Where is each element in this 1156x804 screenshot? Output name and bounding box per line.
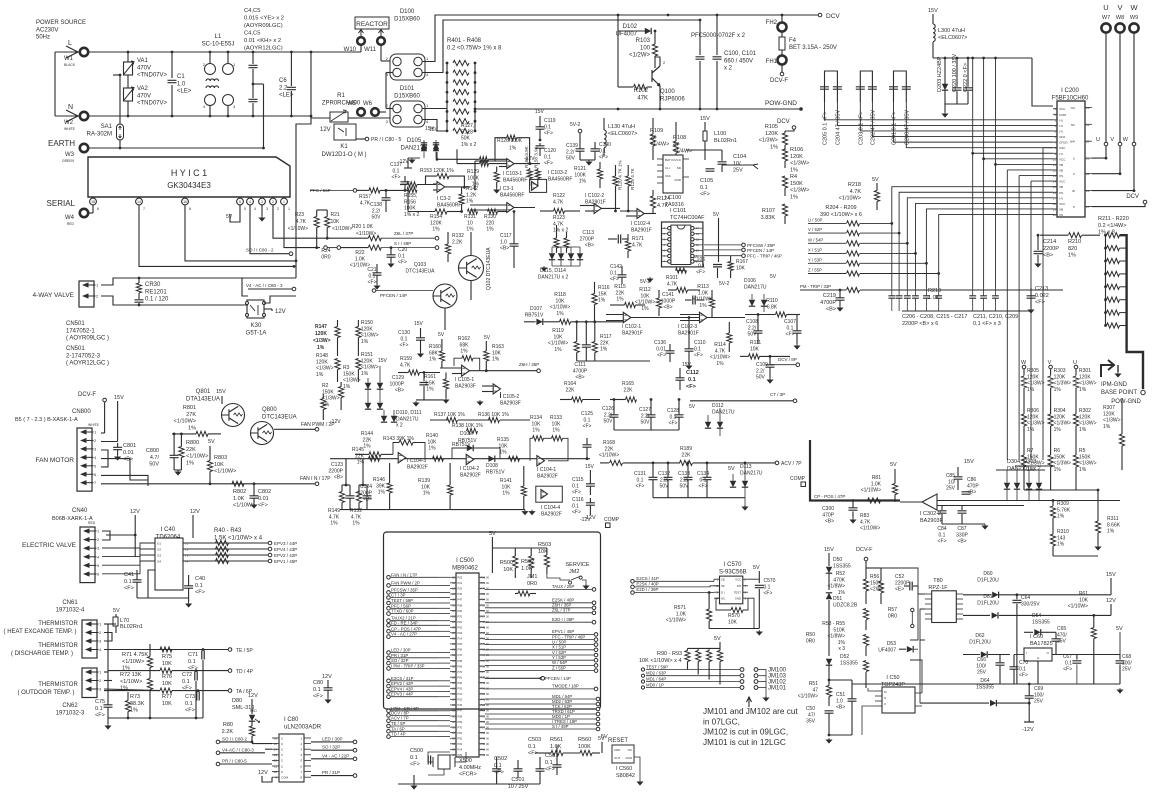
wire — [1050, 388, 1052, 414]
wire — [610, 399, 626, 401]
svg-text:R40 - R43: R40 - R43 — [214, 528, 242, 534]
svg-text:RED: RED — [250, 709, 257, 713]
wire — [322, 394, 324, 399]
wire — [274, 428, 315, 430]
svg-text:R108: R108 — [673, 135, 686, 141]
svg-text:FAN I N / 17P: FAN I N / 17P — [391, 572, 417, 577]
svg-text:R56: R56 — [870, 574, 879, 580]
wire — [489, 163, 508, 165]
svg-text:RPZ-1F: RPZ-1F — [928, 585, 948, 591]
svg-text:P: P — [1073, 205, 1075, 209]
wire — [311, 117, 330, 119]
svg-text:PFCEN / 14P: PFCEN / 14P — [545, 676, 571, 681]
svg-text:5.76K: 5.76K — [1057, 507, 1071, 513]
ground — [1115, 372, 1120, 377]
svg-text:120K: 120K — [765, 131, 778, 137]
svg-text:VCC: VCC — [735, 578, 741, 582]
svg-text:R22: R22 — [355, 250, 364, 256]
wire — [433, 189, 437, 191]
svg-text:<F>: <F> — [694, 353, 703, 359]
svg-text:TC74HC00AF: TC74HC00AF — [670, 215, 705, 221]
wire — [552, 265, 580, 267]
terminal — [80, 144, 88, 152]
svg-text:1%: 1% — [428, 446, 436, 452]
svg-text:R116: R116 — [598, 285, 610, 291]
svg-text:D15XB60: D15XB60 — [394, 16, 420, 22]
svg-text:10K: 10K — [499, 443, 509, 449]
wire — [967, 91, 969, 104]
svg-text:in 07LGC,: in 07LGC, — [703, 717, 740, 726]
svg-text:DAN217U x 2: DAN217U x 2 — [1007, 466, 1041, 472]
wire — [647, 86, 652, 88]
svg-text:C108: C108 — [746, 319, 758, 325]
wire — [650, 400, 652, 415]
svg-text:O1: O1 — [157, 542, 161, 546]
wire — [113, 74, 120, 76]
svg-text:O3: O3 — [157, 554, 161, 558]
svg-text:VS: VS — [1059, 174, 1063, 178]
op-amp I C102-1 BA2901F — [623, 312, 631, 322]
svg-text:47: 47 — [812, 687, 818, 693]
svg-text:2.2K: 2.2K — [452, 239, 463, 245]
svg-text:<F>: <F> — [544, 131, 553, 137]
svg-text:12V: 12V — [1106, 598, 1116, 604]
wire — [437, 158, 480, 160]
svg-text:15V: 15V — [535, 109, 545, 115]
wire — [514, 207, 535, 209]
svg-text:R148: R148 — [316, 353, 328, 359]
wire — [571, 321, 625, 323]
svg-text:R71 4.75K: R71 4.75K — [122, 652, 148, 658]
wire — [513, 246, 515, 268]
wire — [770, 364, 796, 366]
svg-text:68K: 68K — [460, 342, 470, 348]
svg-text:I N: I N — [1059, 196, 1063, 200]
svg-text:C205 0.1 <F>: C205 0.1 <F> — [823, 111, 829, 145]
svg-text:R162: R162 — [458, 336, 470, 342]
svg-text:3.83K: 3.83K — [761, 215, 776, 221]
wire — [852, 511, 854, 518]
svg-text:1%: 1% — [1027, 427, 1035, 433]
svg-text:I C40: I C40 — [161, 527, 176, 533]
wire — [1023, 388, 1025, 414]
svg-text:I C60: I C60 — [1030, 634, 1043, 640]
svg-text:4.7K: 4.7K — [351, 514, 362, 520]
svg-text:C200 47 / 35V: C200 47 / 35V — [904, 110, 910, 145]
wire — [1097, 533, 1099, 545]
wire — [174, 469, 181, 471]
svg-text:0.1: 0.1 — [700, 185, 708, 191]
ground — [541, 266, 546, 271]
ground — [477, 400, 482, 405]
svg-text:VCC: VCC — [1059, 107, 1066, 111]
svg-text:RED: RED — [88, 521, 96, 525]
svg-text:5V: 5V — [208, 439, 215, 445]
svg-text:C110: C110 — [694, 340, 706, 346]
svg-text:C4,C5: C4,C5 — [244, 8, 260, 14]
svg-text:R51: R51 — [809, 681, 818, 687]
svg-text:150K: 150K — [1079, 454, 1091, 460]
svg-text:D106: D106 — [744, 278, 756, 284]
svg-text:0.1: 0.1 — [1065, 660, 1072, 666]
wire — [290, 52, 292, 86]
wire — [758, 589, 760, 629]
wire — [904, 585, 909, 587]
svg-text:BA2902F: BA2902F — [541, 511, 562, 517]
wire — [149, 672, 151, 679]
wire — [706, 463, 708, 477]
svg-text:DCV-F: DCV-F — [770, 78, 788, 84]
wire earth to right — [120, 147, 264, 149]
capacitor C801 0.01 <B> — [113, 447, 122, 449]
wire — [209, 105, 211, 116]
wire — [330, 237, 368, 239]
wire — [963, 614, 990, 616]
svg-text:1%: 1% — [361, 371, 369, 377]
svg-text:R105: R105 — [765, 124, 778, 130]
op-amp I C103-1 BA4560RF — [507, 159, 514, 169]
svg-text:R401 - R408: R401 - R408 — [447, 38, 482, 44]
svg-text:E2D I / 38P: E2D I / 38P — [552, 617, 574, 622]
node — [387, 735, 391, 739]
svg-text:R119: R119 — [552, 328, 564, 334]
svg-text:12V: 12V — [248, 693, 258, 699]
terminal — [357, 108, 365, 116]
svg-text:UDZC8.2B: UDZC8.2B — [833, 602, 858, 608]
wire — [1038, 470, 1040, 483]
svg-text:0.1: 0.1 — [610, 270, 617, 276]
svg-text:11: 11 — [274, 764, 277, 768]
wire pin8 down — [92, 205, 94, 213]
svg-text:I C101: I C101 — [670, 208, 686, 214]
wire — [636, 304, 646, 306]
wire — [171, 85, 173, 116]
svg-text:13: 13 — [274, 753, 278, 757]
wire — [529, 179, 531, 187]
wire — [932, 42, 934, 58]
svg-text:Z6L / 37P: Z6L / 37P — [394, 231, 413, 236]
svg-text:1.0K: 1.0K — [355, 256, 366, 262]
svg-text:C1: C1 — [177, 74, 185, 80]
svg-text:12V: 12V — [275, 309, 286, 315]
svg-text:E2CS / 41P: E2CS / 41P — [636, 576, 659, 581]
wire — [1075, 467, 1077, 490]
svg-text:SO / 32P: SO / 32P — [391, 658, 409, 663]
wire — [601, 207, 620, 209]
svg-text:C125: C125 — [581, 411, 593, 417]
svg-text:R118: R118 — [554, 292, 566, 298]
svg-text:P50: P50 — [481, 742, 486, 746]
wire — [675, 153, 677, 162]
svg-text:R114: R114 — [714, 342, 726, 348]
svg-text:C127: C127 — [639, 407, 651, 413]
wire fan pwm chain — [101, 483, 315, 485]
node — [864, 557, 868, 561]
svg-text:C68: C68 — [1122, 654, 1131, 660]
svg-text:N: N — [68, 104, 73, 111]
wire — [996, 469, 1045, 471]
svg-text:12: 12 — [274, 759, 278, 763]
svg-text:25V: 25V — [1034, 699, 1044, 705]
svg-text:I C104-2: I C104-2 — [460, 466, 479, 472]
wire — [721, 165, 723, 172]
wire — [627, 165, 629, 176]
svg-text:RA-302M: RA-302M — [87, 131, 112, 137]
connector CN800 fan — [77, 428, 92, 491]
svg-text:15V: 15V — [928, 8, 938, 14]
svg-text:R152: R152 — [350, 508, 362, 514]
wire — [652, 190, 654, 196]
wire — [341, 485, 343, 492]
svg-text:CT / 3P: CT / 3P — [391, 593, 406, 598]
svg-text:8: 8 — [97, 207, 99, 211]
svg-text:15V: 15V — [1106, 572, 1116, 578]
wire — [435, 140, 437, 145]
ground — [115, 455, 120, 460]
wire — [646, 687, 740, 689]
wire — [594, 305, 596, 322]
wire — [485, 341, 487, 351]
svg-text:TD / 4P: TD / 4P — [236, 669, 254, 675]
wire — [589, 498, 591, 503]
node — [387, 719, 391, 723]
wire — [376, 264, 378, 273]
svg-text:1000P: 1000P — [390, 381, 405, 387]
svg-text:R189: R189 — [680, 446, 692, 452]
svg-text:16: 16 — [183, 200, 187, 204]
svg-text:8.66K: 8.66K — [1107, 522, 1121, 528]
wire — [127, 717, 129, 719]
wire — [101, 441, 118, 443]
svg-text:TAUX / 25P: TAUX / 25P — [552, 584, 575, 589]
svg-text:2.2/: 2.2/ — [566, 149, 575, 155]
svg-text:R309: R309 — [1057, 501, 1069, 507]
svg-text:DCV: DCV — [1126, 194, 1139, 200]
svg-text:<1/2W>: <1/2W> — [629, 53, 651, 59]
svg-text:4.7K: 4.7K — [657, 203, 669, 209]
wire — [852, 683, 1120, 685]
svg-text:4.7K: 4.7K — [632, 242, 643, 248]
svg-text:50V: 50V — [756, 375, 766, 381]
svg-text:VA2: VA2 — [137, 86, 149, 92]
svg-text:VCC: VCC — [1059, 180, 1066, 184]
svg-text:SC-10-E55J: SC-10-E55J — [202, 41, 235, 47]
svg-text:D107: D107 — [530, 306, 542, 312]
wire — [599, 162, 601, 169]
node — [387, 709, 391, 713]
wire — [613, 400, 615, 415]
svg-text:CT / 3P: CT / 3P — [770, 392, 785, 397]
svg-text:COMP: COMP — [790, 476, 806, 482]
svg-text:CN62: CN62 — [62, 703, 78, 709]
svg-text:5: 5 — [239, 200, 241, 204]
IC I C101 TC74HC00AF — [662, 222, 703, 267]
wire — [172, 670, 230, 672]
svg-text:P92: P92 — [458, 736, 463, 740]
wire earth — [88, 147, 120, 149]
svg-text:I N: I N — [1059, 124, 1063, 128]
svg-text:1%: 1% — [361, 339, 369, 345]
svg-text:I C570: I C570 — [724, 562, 742, 568]
svg-text:BA2902F: BA2902F — [537, 473, 558, 479]
wire — [539, 129, 541, 140]
wire — [719, 642, 721, 648]
svg-text:SO / 32P: SO / 32P — [322, 745, 340, 750]
svg-text:22K: 22K — [682, 452, 692, 458]
svg-text:1971032-4: 1971032-4 — [56, 607, 85, 613]
wire — [653, 497, 745, 499]
svg-text:C73: C73 — [185, 694, 195, 700]
wire — [1037, 255, 1039, 262]
svg-text:C106: C106 — [693, 257, 705, 263]
wire — [995, 288, 997, 296]
wire — [220, 741, 252, 743]
svg-text:JM101 is cut in 12LGC: JM101 is cut in 12LGC — [703, 738, 786, 747]
svg-text:14: 14 — [137, 200, 141, 204]
svg-text:<1/10W>: <1/10W> — [550, 305, 570, 311]
svg-text:C71: C71 — [188, 652, 198, 658]
svg-text:<1/10W>: <1/10W> — [288, 226, 308, 232]
svg-text:V4 - AC / I C80 - 3: V4 - AC / I C80 - 3 — [246, 283, 283, 288]
wire L bus — [88, 51, 361, 53]
wire — [192, 515, 194, 538]
svg-text:R80: R80 — [223, 722, 233, 728]
wire — [606, 314, 623, 316]
wire 5V reset — [601, 742, 603, 753]
svg-text:CN61: CN61 — [62, 600, 78, 606]
wire — [621, 277, 623, 284]
op-amp I C102-3 BA2901F — [700, 312, 708, 322]
svg-text:RE1201: RE1201 — [145, 289, 167, 295]
svg-text:15V: 15V — [824, 547, 834, 553]
svg-text:C800: C800 — [146, 448, 159, 454]
svg-text:<F>: <F> — [313, 694, 323, 700]
wire — [1006, 490, 1008, 501]
svg-text:JM102 is cut in 09LGC,: JM102 is cut in 09LGC, — [703, 728, 788, 737]
svg-text:0.1 <F> x 3: 0.1 <F> x 3 — [973, 321, 1001, 327]
wire — [386, 72, 393, 74]
wire — [440, 367, 462, 369]
svg-text:E2SK / 40P: E2SK / 40P — [636, 582, 658, 587]
wire — [621, 266, 623, 275]
svg-text:D60: D60 — [983, 571, 992, 577]
wire — [696, 299, 704, 301]
svg-text:D112: D112 — [712, 403, 724, 409]
wire — [622, 238, 628, 240]
op-amp I C105-1 BA2903F — [462, 365, 470, 376]
svg-text:BA2903F: BA2903F — [455, 383, 476, 389]
svg-text:<1/10W>: <1/10W> — [710, 355, 730, 361]
node — [387, 724, 391, 728]
svg-text:BA2901F: BA2901F — [622, 330, 643, 336]
node — [387, 679, 391, 683]
svg-text:R145: R145 — [352, 447, 364, 453]
wire — [706, 480, 708, 498]
svg-text:P50: P50 — [481, 631, 486, 635]
svg-text:SERIAL: SERIAL — [47, 199, 76, 208]
svg-text:L130 47uH: L130 47uH — [608, 124, 635, 130]
svg-text:D62: D62 — [975, 633, 984, 639]
IC HYIC1 GK30434E3 — [88, 157, 290, 197]
svg-text:1971032-3: 1971032-3 — [56, 710, 85, 716]
svg-text:CL I: CL I — [665, 166, 671, 170]
wire thermistor rows — [104, 633, 112, 642]
wire — [383, 410, 385, 416]
svg-text:R110: R110 — [766, 298, 778, 304]
ground — [837, 306, 842, 311]
svg-text:<F>: <F> — [583, 424, 592, 430]
svg-text:S I / 49P: S I / 49P — [552, 724, 569, 729]
svg-text:R500: R500 — [500, 560, 513, 566]
svg-text:120K: 120K — [790, 154, 803, 160]
svg-text:100K: 100K — [578, 744, 591, 750]
svg-text:R166 3.9K: R166 3.9K — [524, 145, 529, 168]
svg-text:7: 7 — [143, 207, 145, 211]
wire — [381, 453, 393, 455]
node — [216, 740, 220, 744]
svg-text:Z / 55P: Z / 55P — [552, 665, 566, 670]
svg-text:GND: GND — [735, 597, 741, 601]
svg-text:6: 6 — [189, 207, 191, 211]
svg-text:F4: F4 — [789, 38, 797, 44]
svg-text:U / 50P: U / 50P — [808, 217, 822, 222]
svg-text:I C102-1: I C102-1 — [622, 324, 641, 330]
svg-text:510K: 510K — [833, 627, 845, 633]
svg-text:V: V — [1048, 360, 1052, 366]
svg-text:1.0: 1.0 — [500, 239, 507, 245]
node — [740, 674, 744, 678]
svg-text:PR / 31P: PR / 31P — [322, 770, 340, 775]
node — [1141, 390, 1145, 394]
svg-text:10K: 10K — [162, 681, 172, 687]
svg-text:R168: R168 — [603, 440, 615, 446]
svg-text:FD - RE / 34P: FD - RE / 34P — [391, 620, 418, 625]
svg-text:15V: 15V — [964, 459, 974, 465]
svg-text:D15XB60: D15XB60 — [394, 93, 420, 99]
wire — [342, 484, 350, 486]
svg-text:120K: 120K — [316, 359, 328, 365]
wire — [349, 485, 351, 496]
svg-text:P92: P92 — [458, 625, 463, 629]
op-amp I C104-1 BA2902F — [537, 456, 545, 466]
svg-text:X500: X500 — [459, 758, 472, 764]
svg-text:R121: R121 — [574, 166, 586, 172]
svg-text:P70: P70 — [458, 670, 463, 674]
wire — [436, 152, 438, 159]
svg-text:0.01 <KH> x 2: 0.01 <KH> x 2 — [244, 38, 281, 44]
svg-text:P61: P61 — [481, 637, 486, 641]
wire — [839, 300, 841, 306]
wire — [1121, 446, 1123, 470]
wire — [652, 463, 654, 477]
node — [387, 714, 391, 718]
svg-text:<F>: <F> — [572, 510, 581, 516]
wire — [876, 183, 878, 191]
svg-text:47K: 47K — [637, 95, 648, 101]
svg-text:FH1: FH1 — [766, 59, 778, 65]
wire — [173, 458, 175, 470]
svg-text:VB: VB — [1059, 207, 1063, 211]
node — [435, 246, 439, 250]
wire — [423, 140, 425, 145]
svg-text:1SS355: 1SS355 — [1032, 619, 1050, 625]
ground — [1095, 545, 1100, 550]
wire — [999, 614, 1111, 616]
node — [793, 399, 797, 403]
wire — [697, 648, 699, 650]
svg-text:NW: NW — [1070, 140, 1075, 144]
svg-text:<B>: <B> — [585, 243, 594, 249]
